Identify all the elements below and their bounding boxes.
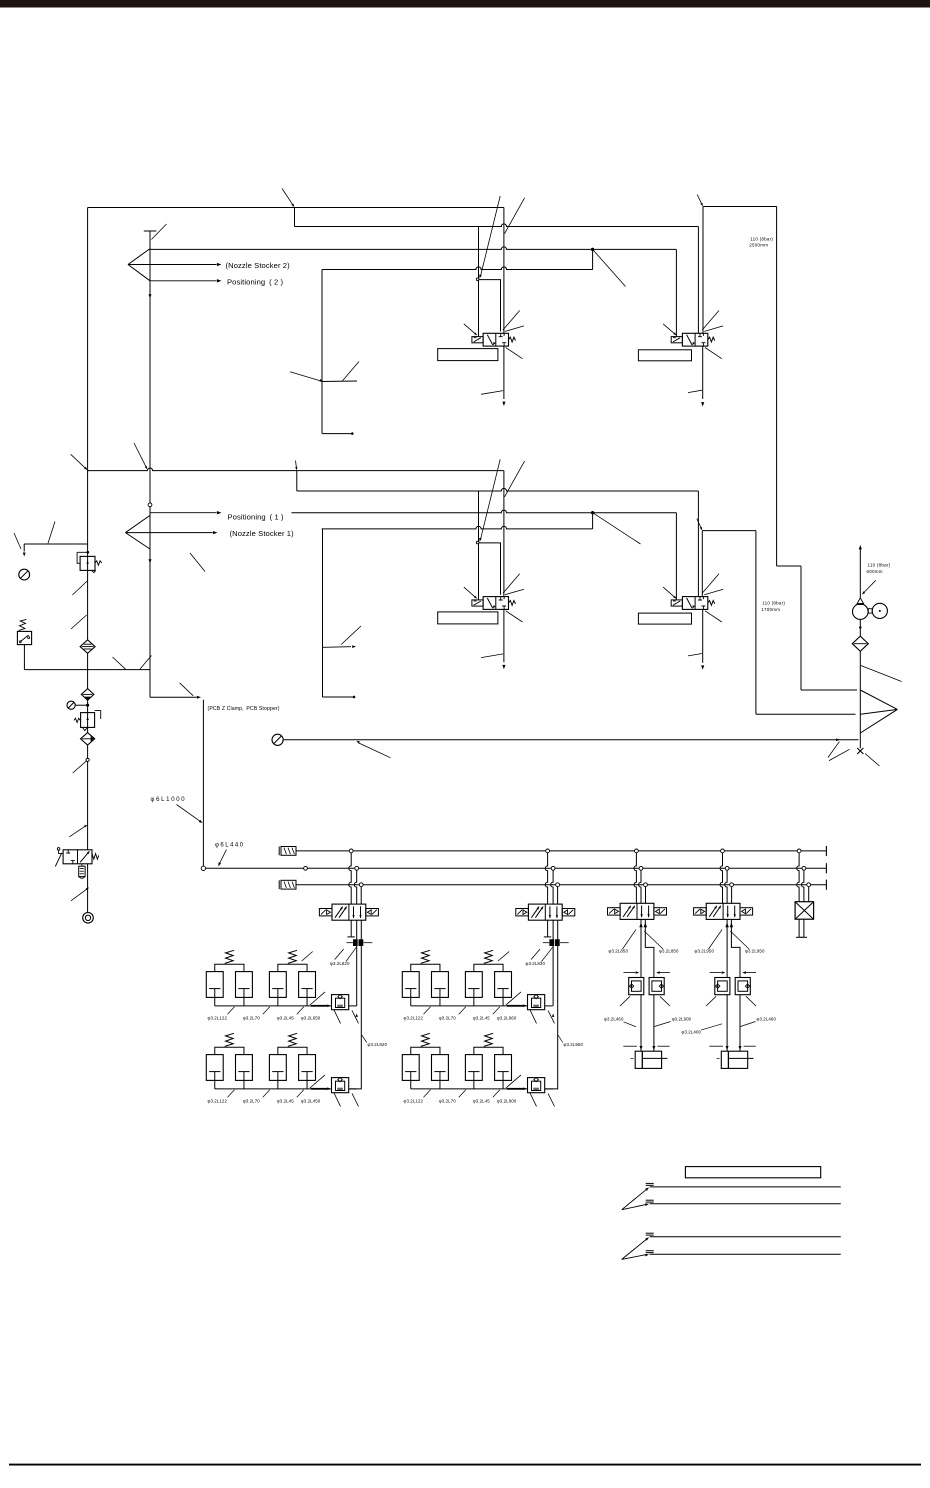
regulator R1 drain — [92, 570, 96, 572]
svg-text:φ3.2L70: φ3.2L70 — [243, 1016, 260, 1021]
valve1 label box — [438, 349, 498, 361]
leaders under box cluster1 row1 — [334, 1010, 359, 1024]
fan system1 — [125, 515, 212, 549]
label leaders cluster2 row1 — [424, 1007, 500, 1015]
top title bar — [0, 0, 930, 8]
end dot 352/433 — [351, 433, 353, 435]
node stub corner 478/279 — [476, 278, 479, 281]
leader to node 760 — [73, 761, 87, 773]
wire outB station4 — [731, 919, 740, 977]
wire row to station cluster2 row2 — [545, 1088, 553, 1090]
bottom border line — [9, 1464, 921, 1466]
end dot 354/697 — [353, 696, 355, 698]
regulator R2 spring — [74, 718, 80, 722]
wires nozzles to row cluster2 row2 — [411, 1080, 503, 1089]
node rail B start — [201, 866, 205, 870]
node rail B 305 — [304, 866, 308, 870]
text phi6L1000 — [151, 797, 187, 803]
wire main branch y470 — [88, 468, 504, 471]
regulator R1 pilot — [77, 551, 89, 563]
arrow on gauge line right — [828, 738, 840, 757]
valve4 leader fan — [663, 574, 723, 622]
speed controller cluster1 row2 — [332, 1077, 349, 1092]
svg-text:2500mm: 2500mm — [749, 242, 768, 247]
labels valve out station3 — [609, 930, 679, 954]
text Nozzle Stocker 2 — [226, 261, 291, 270]
svg-text:Positioning ( 1 ): Positioning ( 1 ) — [228, 513, 285, 522]
hand valve HV1 body — [63, 850, 92, 864]
filter F3 — [81, 733, 95, 745]
svg-text:(Nozzle Stocker 2): (Nozzle Stocker 2) — [226, 261, 291, 270]
label leaders cluster1 row1 — [228, 1007, 304, 1015]
wire taps station4 — [720, 853, 732, 904]
wire gauge line y739 — [283, 739, 858, 741]
leader at T-top — [151, 224, 166, 240]
leader arrow to stub corner — [478, 196, 500, 279]
valve3 label box — [438, 612, 498, 624]
arrow stub y381 — [290, 362, 359, 383]
cylinder station4 — [717, 1051, 754, 1068]
blank plate box — [795, 902, 814, 920]
muffler rail C — [279, 880, 296, 889]
svg-text:φ3.2L950: φ3.2L950 — [695, 949, 715, 954]
wire valve4 feed drop — [697, 491, 699, 597]
wire cylinder line x322 — [322, 270, 352, 434]
vacuum motor circle — [872, 603, 887, 618]
text phi6L440 — [215, 843, 245, 849]
wire row to station cluster2 row1 — [545, 1005, 553, 1007]
leader to corner 702/530 — [697, 519, 703, 531]
wire lineA station2 — [552, 946, 554, 1006]
svg-text:φ3.2L900: φ3.2L900 — [497, 1099, 517, 1104]
solenoid valve SV2-1 — [472, 333, 516, 346]
leaders under box cluster2 row2 — [530, 1093, 555, 1107]
node taps station1 — [349, 849, 363, 887]
regulator R2 body — [81, 713, 95, 728]
filter F2 — [81, 689, 94, 701]
leader flow arrow cluster2 row2 — [506, 1075, 521, 1088]
labels cluster2 row1 — [404, 1016, 517, 1021]
nozzle pair cluster2 row2 unit2 — [465, 1033, 511, 1080]
valve2 leader fan — [663, 311, 723, 359]
wire riser x592 mid — [592, 513, 594, 529]
nozzle pair cluster1 row2 unit2 — [269, 1033, 315, 1080]
svg-text:φ3.2L950: φ3.2L950 — [745, 949, 765, 954]
svg-text:φ3.2L70: φ3.2L70 — [439, 1016, 456, 1021]
svg-text:110 (8bar): 110 (8bar) — [750, 237, 773, 242]
svg-text:φ3.2L900: φ3.2L900 — [672, 1016, 692, 1021]
air duct rectangle 2500mm run — [703, 207, 857, 691]
leader on vac line 665 — [861, 666, 902, 682]
svg-text:(PCB Z Clamp, PCB Stopper): (PCB Z Clamp, PCB Stopper) — [208, 706, 280, 712]
arrows below valve station3 — [639, 923, 647, 928]
fitting blocks station2 — [543, 940, 569, 946]
svg-text:Positioning ( 2 ): Positioning ( 2 ) — [227, 277, 284, 286]
leader under fan1 — [190, 553, 205, 572]
leaders under box cluster2 row1 — [530, 1010, 555, 1024]
leader on gauge line — [356, 740, 391, 758]
valve2 label box — [638, 350, 691, 361]
wire row line cluster1 row1 — [215, 1005, 332, 1007]
pressure switch PS1 — [17, 619, 31, 669]
wire line y512 left — [150, 511, 222, 514]
wire row to station cluster1 row2 — [349, 1088, 357, 1090]
wire ports down station2 — [553, 920, 558, 940]
plug X on vac line — [857, 748, 863, 754]
leader vac line — [861, 580, 876, 595]
leader diagonal x524 — [505, 198, 525, 234]
valve4 label box — [638, 613, 691, 624]
wire switch tee y669 — [24, 669, 150, 671]
flow arrow row cluster2 row2 — [507, 1087, 527, 1090]
wire ports down station1 — [357, 920, 362, 940]
pressure gauge G2 — [67, 701, 75, 709]
wire row to station cluster1 row1 — [349, 1005, 357, 1007]
regulator R2 pilot — [95, 711, 101, 719]
svg-text:φ3.2L70: φ3.2L70 — [243, 1099, 260, 1104]
wire branch vertical x150 — [149, 231, 151, 697]
wire outA station3 — [640, 919, 642, 977]
hand valve HV1 lever — [55, 848, 63, 867]
valve4 exhaust — [688, 609, 704, 669]
wires nozzles to row cluster1 row2 — [215, 1080, 307, 1089]
svg-text:φ3.2L950: φ3.2L950 — [564, 1042, 584, 1047]
wires nozzles to row cluster1 row1 — [215, 997, 307, 1006]
legend line 4 — [646, 1251, 841, 1255]
hand valve HV1 flow — [80, 850, 90, 862]
wire riser x592 — [592, 249, 594, 269]
wire plug port station2 — [544, 920, 551, 937]
solenoid valve SV1-1 — [472, 597, 516, 610]
wire valve3 pilot drop — [478, 491, 480, 600]
wire valve3 right drop — [503, 471, 505, 597]
nozzle pair cluster2 row1 unit2 — [465, 950, 511, 997]
pump coupling box — [868, 609, 872, 613]
valve2 exhaust — [688, 346, 704, 406]
leader diagonal x524 mid — [505, 461, 525, 497]
wire gauge branch — [23, 544, 88, 557]
leader valve left station2 — [498, 952, 509, 962]
legend line 3 — [646, 1233, 841, 1237]
wire row line cluster2 row1 — [411, 1005, 528, 1007]
speed controller right station4 — [735, 978, 750, 995]
node on main line 760 — [86, 758, 89, 761]
wire valve1 right drop x504 — [503, 208, 505, 334]
pressure gauge port G1 — [19, 569, 30, 580]
port arrows above cyl station3 — [623, 1046, 669, 1050]
regulator R1 body — [80, 556, 95, 570]
wire taps station1 — [349, 853, 361, 904]
wire row line cluster1 row2 — [215, 1088, 332, 1090]
leader at corner pcb — [180, 683, 194, 696]
wire taps blank — [797, 853, 809, 902]
label leaders cluster1 row2 — [228, 1090, 304, 1098]
leader valve left station1 — [302, 952, 313, 962]
rail A exhaust — [296, 846, 826, 856]
label leaders cluster2 row2 — [424, 1090, 500, 1098]
leader cyl labels station3 — [624, 1022, 671, 1027]
speed controller right station3 — [649, 978, 664, 995]
port arrows above cyl station4 — [709, 1046, 755, 1050]
wire lineA station1 — [356, 946, 358, 1006]
wire supply y491 — [297, 488, 699, 491]
legend fan 2 — [622, 1236, 650, 1259]
arrow under row1 station2 — [552, 1014, 554, 1017]
vac filter diamond — [852, 636, 868, 651]
wire top border y207 — [88, 207, 504, 209]
leader phi6L440 — [217, 850, 227, 867]
wire below pump — [859, 619, 861, 636]
text Positioning 2 — [227, 277, 284, 286]
svg-text:φ3.2L820: φ3.2L820 — [330, 961, 350, 966]
wire stub valve1 — [479, 280, 501, 332]
pressure gauge G3 — [272, 734, 283, 745]
wire outB station3 — [645, 919, 654, 977]
labels cyl station4 — [682, 1016, 777, 1034]
valve1 exhaust — [481, 346, 505, 406]
valve3 exhaust — [481, 609, 505, 669]
regulator R1 spring — [95, 561, 102, 565]
leader main line 825 — [69, 824, 88, 837]
valve1 leader fan — [464, 311, 524, 359]
filter F1 — [80, 640, 95, 653]
svg-text:φ3.2L45: φ3.2L45 — [473, 1099, 490, 1104]
pilot valve station1 — [319, 904, 378, 920]
nozzle pair cluster2 row1 unit1 — [402, 950, 448, 997]
labels cluster1 row1 — [208, 1016, 321, 1021]
pilot valve station4 — [694, 903, 753, 919]
text Positioning 1 — [228, 513, 285, 522]
wire plug port station1 — [347, 920, 354, 937]
wire line y528 — [322, 526, 593, 529]
leaders under box cluster1 row2 — [334, 1093, 359, 1107]
wires nozzles to row cluster2 row1 — [411, 997, 503, 1006]
solenoid valve SV1-2 — [671, 597, 715, 610]
leader to corner 88/470 — [71, 454, 89, 471]
wire blank plugs — [796, 919, 807, 937]
svg-text:φ3.2L830: φ3.2L830 — [526, 961, 546, 966]
leader near coupling — [71, 886, 90, 900]
text 110 8bar 600mm — [867, 563, 891, 574]
leader ticks gauge branch — [14, 522, 55, 550]
leaders under ctrl station4 — [706, 996, 756, 1006]
T-top tick x150 — [144, 230, 157, 232]
nozzle pair cluster1 row1 unit2 — [269, 950, 315, 997]
leader flow arrow cluster1 row2 — [310, 1075, 325, 1088]
right fan collector — [860, 690, 897, 733]
svg-text:φ3.2L122: φ3.2L122 — [208, 1099, 228, 1104]
labels valve out station4 — [695, 930, 765, 954]
svg-text:φ3.2L850: φ3.2L850 — [659, 949, 679, 954]
node taps blank — [797, 849, 810, 887]
wire valve2 left drop x676 — [675, 249, 677, 336]
air duct rectangle 1700mm run — [702, 531, 855, 715]
leader plug station1 — [335, 949, 344, 960]
node junction 592/249 — [591, 248, 594, 251]
leader plug station2 — [531, 949, 540, 960]
wire stub valve3 — [479, 543, 501, 595]
wire ctrl through R station3 — [653, 995, 655, 1051]
leader to bump 150/470 — [134, 443, 148, 470]
hand valve HV1 seats — [66, 850, 75, 864]
svg-text:(Nozzle Stocker 1): (Nozzle Stocker 1) — [230, 529, 295, 538]
arrow line Positioning 2 — [150, 279, 222, 282]
label top station2 — [526, 947, 553, 966]
legend fan 1 — [622, 1186, 650, 1209]
text PCB Z Clamp — [208, 706, 280, 712]
flow arrow row cluster2 row1 — [507, 1004, 527, 1007]
check valve vac — [857, 598, 864, 605]
legend bar rectangle — [685, 1167, 820, 1178]
muffler M0 below valve — [79, 864, 85, 879]
leaders under ctrl station3 — [620, 996, 670, 1006]
wire main supply vertical — [87, 208, 89, 913]
arrow line Nozzle Stocker 2 — [150, 263, 222, 266]
wire ctrl through R station4 — [739, 995, 741, 1051]
leader above F1 — [71, 615, 87, 629]
svg-text:φ3.2L450: φ3.2L450 — [301, 1099, 321, 1104]
text Nozzle Stocker 1 — [230, 529, 295, 538]
speed controller cluster2 row2 — [528, 1077, 545, 1092]
wire outA station4 — [726, 919, 728, 977]
labels cluster1 row2 — [208, 1099, 321, 1104]
svg-text:φ3.2L45: φ3.2L45 — [277, 1099, 294, 1104]
labels cyl station3 — [604, 1016, 692, 1021]
leader below R1 — [72, 581, 87, 595]
regulator R2 drain — [82, 727, 87, 730]
port arrows above ctrl station4 — [710, 971, 756, 974]
wire vac to manifold — [859, 651, 861, 748]
leader cyl labels station4 — [701, 1022, 756, 1031]
wire valve1 pilot drop x478 — [478, 227, 480, 337]
muffler rail A — [279, 847, 296, 856]
svg-text:φ3.2L122: φ3.2L122 — [404, 1016, 424, 1021]
rail B supply phi6L440 — [206, 863, 827, 873]
wire lineB station2 — [545, 946, 558, 1089]
wire ctrl through L station4 — [726, 995, 728, 1051]
fan system2 — [128, 249, 150, 281]
svg-text:φ6L440: φ6L440 — [215, 843, 245, 849]
svg-text:φ3.2L460: φ3.2L460 — [757, 1016, 777, 1021]
node junction 592/512 — [591, 511, 594, 514]
svg-text:φ3.2L650: φ3.2L650 — [301, 1016, 321, 1021]
wire step x294 — [294, 208, 296, 227]
leader to corner 297/470 — [295, 461, 298, 471]
speed controller left station4 — [715, 978, 730, 995]
speed controller left station3 — [629, 978, 644, 995]
svg-text:600mm: 600mm — [867, 569, 883, 574]
wire row line cluster2 row2 — [411, 1088, 528, 1090]
svg-text:φ3.2L820: φ3.2L820 — [368, 1042, 388, 1047]
svg-text:φ6L1000: φ6L1000 — [151, 797, 187, 803]
leader from junction 592/512 — [593, 513, 641, 544]
wire pcb vertical phi6L1000 — [202, 700, 204, 866]
svg-text:φ3.2L45: φ3.2L45 — [277, 1016, 294, 1021]
label bot station2 — [558, 1035, 583, 1047]
nozzle pair cluster2 row2 unit1 — [402, 1033, 448, 1080]
leader from junction 592/249 — [593, 249, 626, 286]
leader flow arrow cluster1 row1 — [310, 992, 325, 1005]
wire taps station3 — [634, 853, 646, 904]
leader at plug X — [829, 749, 880, 766]
air source coupling — [83, 913, 94, 924]
svg-text:1700mm: 1700mm — [761, 607, 780, 612]
flow arrow row cluster1 row1 — [311, 1004, 331, 1007]
node on branch x150 — [148, 503, 152, 507]
svg-text:φ3.2L45: φ3.2L45 — [473, 1016, 490, 1021]
svg-text:φ3.2L960: φ3.2L960 — [497, 1016, 517, 1021]
svg-text:φ3.2L122: φ3.2L122 — [208, 1016, 228, 1021]
wire ctrl through L station3 — [640, 995, 642, 1051]
solenoid valve SV2-2 — [671, 333, 715, 346]
svg-text:φ3.2L400: φ3.2L400 — [682, 1029, 702, 1034]
valve3 leader fan — [464, 574, 524, 622]
hand valve HV1 spring — [92, 854, 99, 860]
text 110 8bar 2500mm — [749, 237, 773, 248]
speed controller cluster2 row1 — [528, 994, 545, 1009]
fitting blocks station1 — [347, 940, 373, 946]
svg-text:110 (8bar): 110 (8bar) — [762, 601, 785, 606]
legend line 2 — [646, 1200, 841, 1204]
pilot valve station3 — [608, 903, 667, 919]
leader phi6L1000 — [177, 805, 204, 825]
svg-text:φ3.2L460: φ3.2L460 — [604, 1016, 624, 1021]
wire step x297 — [296, 471, 298, 491]
wire valve2 feed drop x698 — [697, 227, 699, 334]
wire line y269 — [322, 267, 593, 270]
leader flow arrow cluster2 row1 — [506, 992, 521, 1005]
wire vac riser arrow up — [859, 545, 862, 597]
legend line 1 — [646, 1183, 841, 1187]
wire lineB station1 — [349, 946, 362, 1089]
arrow under row1 station1 — [355, 1014, 357, 1017]
vacuum pump circle — [853, 604, 869, 620]
node stub corner 478/542 — [476, 541, 479, 544]
flow arrow row cluster1 row2 — [311, 1087, 331, 1090]
wire fan drop corner — [150, 696, 201, 699]
wire line y249 — [150, 247, 676, 250]
flow arrow down x150 mid — [148, 559, 151, 563]
svg-text:φ3.2L70: φ3.2L70 — [439, 1099, 456, 1104]
flow arrow down x150 — [148, 294, 151, 298]
label bot station1 — [362, 1035, 388, 1047]
leader ticks y669 — [113, 656, 152, 670]
arrow Nozzle Stocker 1 — [213, 531, 218, 534]
arrows below valve station4 — [725, 923, 733, 928]
node taps station3 — [635, 849, 648, 887]
port arrows above ctrl station3 — [624, 971, 670, 974]
svg-text:φ3.2L850: φ3.2L850 — [609, 949, 629, 954]
wire gauge G2 stub — [75, 704, 89, 707]
wire supply y226 — [295, 224, 699, 227]
wire valve4 left drop — [675, 513, 677, 600]
node taps station2 — [546, 849, 560, 887]
arrow stub y647 — [323, 626, 362, 648]
label top station1 — [330, 947, 356, 966]
leader arrow to stub corner mid — [478, 459, 500, 542]
node taps station4 — [721, 849, 734, 887]
svg-text:φ3.2L122: φ3.2L122 — [404, 1099, 424, 1104]
nozzle pair cluster1 row2 unit1 — [206, 1033, 252, 1080]
cylinder station3 — [631, 1051, 668, 1068]
rail C exhaust — [296, 880, 826, 890]
svg-text:110 (8bar): 110 (8bar) — [868, 563, 891, 568]
leader to corner 294/207 — [282, 189, 295, 208]
nozzle pair cluster1 row1 unit1 — [206, 950, 252, 997]
leader to corner 703/206 — [697, 195, 704, 207]
labels cluster2 row2 — [404, 1099, 517, 1104]
wire taps station2 — [545, 853, 557, 904]
